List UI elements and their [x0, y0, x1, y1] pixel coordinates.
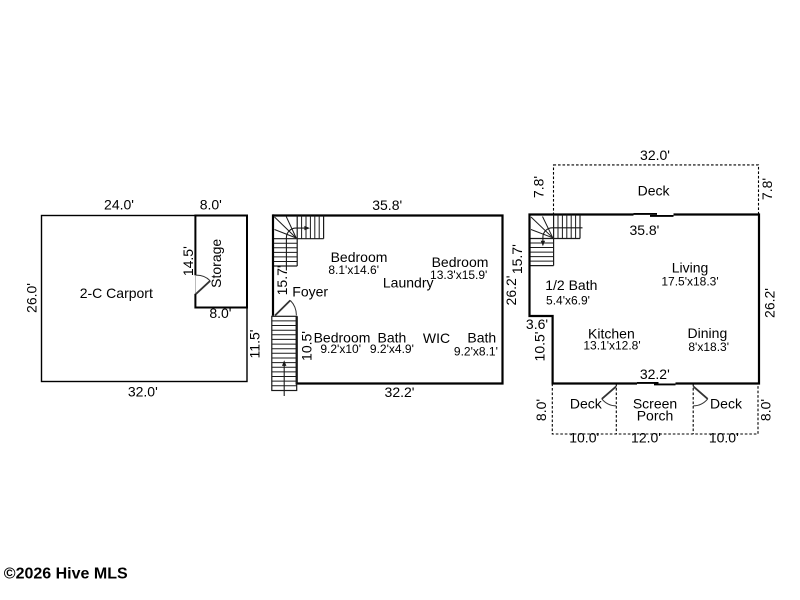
stair B guide line with up arrow [283, 365, 285, 396]
svg-text:26.2': 26.2' [762, 288, 778, 318]
svg-text:Porch: Porch [637, 408, 674, 424]
stair A winder box lines [274, 216, 324, 267]
svg-text:Deck: Deck [638, 182, 671, 198]
svg-text:8.0': 8.0' [200, 196, 222, 212]
porch divider left [615, 384, 617, 435]
bedroom floor left wall [272, 214, 274, 315]
svg-text:13.3'x15.9': 13.3'x15.9' [430, 268, 487, 282]
svg-text:15.7': 15.7' [509, 244, 525, 274]
svg-text:10.0': 10.0' [709, 430, 739, 446]
svg-text:Deck: Deck [570, 396, 603, 412]
storage door leaf [196, 281, 211, 294]
stair C winder fan lines [531, 217, 553, 238]
svg-text:8'x18.3': 8'x18.3' [688, 340, 729, 354]
living floor outline [530, 215, 760, 384]
porch left door arc [602, 399, 617, 406]
svg-text:7.8': 7.8' [759, 178, 775, 200]
svg-text:32.0': 32.0' [640, 147, 670, 163]
porch divider right [692, 384, 694, 435]
stair C vertical run treads [531, 243, 554, 261]
svg-text:Deck: Deck [710, 396, 743, 412]
svg-text:5.4'x6.9': 5.4'x6.9' [546, 293, 590, 307]
stair B treads [272, 321, 297, 386]
svg-text:9.2'x10': 9.2'x10' [320, 342, 361, 356]
svg-text:8.0': 8.0' [533, 399, 549, 421]
storage door arc [196, 275, 210, 281]
svg-text:9.2'x4.9': 9.2'x4.9' [370, 342, 414, 356]
svg-text:32.2': 32.2' [385, 384, 415, 400]
stair B box [272, 316, 297, 390]
stair C horizontal run treads [558, 215, 576, 239]
porch right door arc [693, 399, 708, 406]
svg-text:32.2': 32.2' [640, 366, 670, 382]
svg-text:3.6': 3.6' [526, 316, 548, 332]
stair C guide line with down arrow [543, 228, 583, 242]
top wall slider door [634, 213, 674, 217]
stair C winder box lines [531, 215, 581, 266]
carport outline [42, 216, 248, 382]
svg-text:15.7': 15.7' [274, 265, 290, 295]
svg-text:8.0': 8.0' [209, 305, 231, 321]
svg-text:17.5'x18.3': 17.5'x18.3' [661, 274, 718, 288]
deck dashed outline top [554, 165, 759, 215]
svg-text:10.5': 10.5' [299, 331, 315, 361]
svg-text:2-C Carport: 2-C Carport [80, 285, 153, 301]
svg-text:35.8': 35.8' [372, 197, 402, 213]
screen porch and decks dashed outline [552, 384, 758, 435]
svg-text:8.1'x14.6': 8.1'x14.6' [328, 263, 379, 277]
svg-text:35.8': 35.8' [629, 222, 659, 238]
svg-text:12.0': 12.0' [631, 430, 661, 446]
storage door frame thin line [194, 275, 196, 294]
stair A vertical run treads [274, 243, 297, 261]
svg-text:©2026 Hive MLS: ©2026 Hive MLS [4, 566, 128, 583]
svg-text:32.0': 32.0' [128, 383, 158, 399]
svg-text:Living: Living [672, 260, 709, 276]
svg-text:11.5': 11.5' [246, 330, 262, 359]
svg-text:Dining: Dining [688, 325, 728, 341]
porch right door leaf [693, 386, 708, 399]
svg-text:24.0': 24.0' [104, 196, 134, 212]
svg-text:26.0': 26.0' [23, 283, 39, 313]
stair A guide line with arrow [286, 228, 304, 270]
svg-text:Bath: Bath [467, 330, 496, 346]
svg-text:26.2': 26.2' [503, 276, 519, 306]
bedroom floor outline [273, 216, 503, 384]
svg-text:10.0': 10.0' [569, 430, 599, 446]
svg-text:Laundry: Laundry [383, 275, 434, 291]
stair A winder fan lines [275, 217, 297, 239]
svg-text:WIC: WIC [423, 330, 450, 346]
svg-text:13.1'x12.8': 13.1'x12.8' [583, 339, 640, 353]
stair A horizontal run treads [302, 216, 320, 239]
svg-text:14.5': 14.5' [180, 246, 196, 276]
storage door opening [193, 275, 197, 294]
svg-text:9.2'x8.1': 9.2'x8.1' [454, 344, 498, 358]
storage room outline [195, 216, 247, 308]
svg-text:Storage: Storage [208, 239, 224, 288]
bottom wall slider door [637, 382, 676, 386]
porch left door leaf [602, 386, 617, 399]
svg-text:7.8': 7.8' [531, 176, 547, 198]
foyer door arc [290, 300, 296, 315]
svg-text:1/2 Bath: 1/2 Bath [545, 277, 597, 293]
svg-text:10.5': 10.5' [532, 332, 548, 362]
foyer door leaf [275, 300, 290, 315]
svg-text:Foyer: Foyer [292, 284, 328, 300]
svg-text:8.0': 8.0' [757, 399, 773, 421]
